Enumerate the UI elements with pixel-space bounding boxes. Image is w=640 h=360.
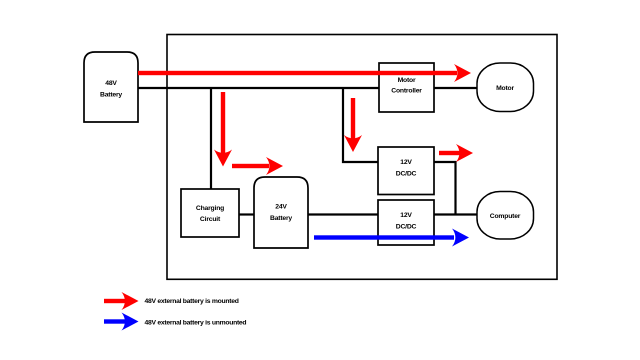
svg-text:48V: 48V <box>105 80 117 87</box>
svg-text:48V external battery is mounte: 48V external battery is mounted <box>145 298 239 305</box>
svg-text:48V external battery is unmoun: 48V external battery is unmounted <box>145 320 247 327</box>
svg-text:Motor: Motor <box>496 85 514 92</box>
svg-text:DC/DC: DC/DC <box>396 224 417 231</box>
svg-text:12V: 12V <box>400 212 412 219</box>
svg-text:Circuit: Circuit <box>200 216 221 223</box>
svg-text:Battery: Battery <box>270 215 292 222</box>
svg-text:Battery: Battery <box>100 92 122 99</box>
svg-text:12V: 12V <box>400 159 412 166</box>
svg-text:Controller: Controller <box>391 88 422 95</box>
svg-text:DC/DC: DC/DC <box>396 170 417 177</box>
svg-text:Motor: Motor <box>398 77 416 84</box>
svg-text:Computer: Computer <box>490 213 521 220</box>
svg-text:24V: 24V <box>275 204 287 211</box>
svg-text:Charging: Charging <box>196 205 224 212</box>
